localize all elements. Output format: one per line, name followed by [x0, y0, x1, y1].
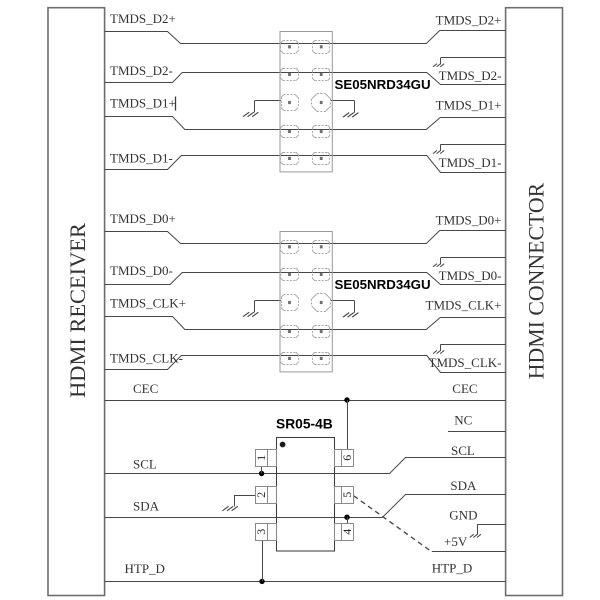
- svg-text:CEC: CEC: [133, 381, 158, 396]
- wire pin3 stub: [262, 541, 264, 582]
- HDMI connector box: [506, 8, 563, 596]
- ESD suppressor U2 package outline: [280, 232, 332, 372]
- U3 pin 1: [254, 450, 276, 467]
- junction HTP_D to pin3: [259, 579, 264, 584]
- wire to left ground: [255, 100, 281, 102]
- svg-text:TMDS_D0+: TMDS_D0+: [436, 212, 502, 227]
- svg-text:4: 4: [340, 529, 354, 535]
- svg-text:TMDS_D0-: TMDS_D0-: [110, 263, 173, 278]
- U3 pin 1 marker dot: [280, 442, 286, 448]
- U3 pin 6: [335, 450, 355, 467]
- svg-text:CEC: CEC: [452, 381, 477, 396]
- svg-text:TMDS_D0+: TMDS_D0+: [110, 211, 176, 226]
- pad pin ESD U1 r2c2: [312, 68, 330, 81]
- svg-text:SE05NRD34GU: SE05NRD34GU: [335, 77, 431, 92]
- svg-text:TMDS_CLK+: TMDS_CLK+: [110, 296, 186, 311]
- svg-text:HDMI RECEIVER: HDMI RECEIVER: [65, 223, 90, 398]
- wire +5V: [432, 551, 506, 553]
- pad pin ESD U2 r5c2: [312, 352, 330, 365]
- svg-text:SE05NRD34GU: SE05NRD34GU: [335, 277, 431, 292]
- pad pin ESD U2 r3c2: [312, 294, 331, 312]
- U3 pin 5: [335, 487, 355, 504]
- wire NC: [448, 431, 506, 433]
- pad pin ESD U2 r2c2: [312, 268, 330, 281]
- wire GND stub: [478, 524, 506, 526]
- wire shield stub: [441, 257, 506, 259]
- ground shield: [433, 144, 444, 153]
- svg-text:6: 6: [340, 455, 354, 461]
- svg-text:SDA: SDA: [133, 499, 160, 514]
- svg-text:TMDS_CLK+: TMDS_CLK+: [426, 297, 502, 312]
- junction SCL to pin1: [259, 471, 264, 476]
- ground shield: [433, 344, 444, 353]
- wire pin2 to ground: [234, 495, 256, 497]
- wire TMDS_D0+: [105, 231, 506, 244]
- svg-text:TMDS_D2+: TMDS_D2+: [436, 12, 502, 27]
- pad pin ESD U2 r5c1: [281, 352, 299, 365]
- wire to right ground: [331, 300, 355, 302]
- pad pin ESD U1 r4c2: [312, 125, 330, 138]
- svg-text:2: 2: [254, 492, 268, 498]
- wire SDA: [105, 495, 506, 518]
- pad pin ESD U1 r3c1: [281, 95, 299, 111]
- U3 pin 2: [254, 487, 276, 504]
- wire TMDS_CLK-: [105, 356, 506, 373]
- junction CEC to pin6: [344, 397, 349, 402]
- wire dashed pin5 to +5V: [354, 496, 432, 552]
- wire CEC stub to pin 6: [347, 400, 349, 449]
- wire SCL: [105, 458, 506, 474]
- svg-text:SCL: SCL: [451, 443, 475, 458]
- pad pin ESD U1 r1c2: [312, 41, 330, 54]
- pad pin ESD U1 r4c1: [281, 125, 299, 138]
- ground left of ESD: [243, 101, 258, 117]
- ground right of ESD: [343, 101, 358, 117]
- HDMI receiver box: [48, 8, 105, 596]
- ground GND net: [470, 524, 481, 537]
- svg-text:TMDS_D2+: TMDS_D2+: [110, 11, 176, 26]
- wire shield stub: [441, 57, 506, 59]
- svg-text:TMDS_CLK-: TMDS_CLK-: [110, 351, 183, 366]
- pad pin ESD U2 r1c1: [281, 241, 299, 254]
- svg-text:TMDS_D1+: TMDS_D1+: [110, 96, 176, 111]
- svg-text:TMDS_D1-: TMDS_D1-: [110, 151, 173, 166]
- svg-text:HDMI CONNECTOR: HDMI CONNECTOR: [525, 182, 549, 379]
- pad pin ESD U1 r1c1: [281, 41, 299, 54]
- svg-text:TMDS_D1+: TMDS_D1+: [436, 97, 502, 112]
- svg-text:SR05-4B: SR05-4B: [276, 417, 333, 432]
- wire CEC: [105, 400, 506, 402]
- svg-text:+5V: +5V: [444, 534, 468, 549]
- svg-text:GND: GND: [449, 508, 477, 523]
- pad pin ESD U2 r1c2: [312, 241, 330, 254]
- pad pin ESD U2 r3c1: [281, 295, 299, 311]
- wire TMDS_D1+: [105, 117, 506, 130]
- pad pin ESD U1 r2c1: [281, 68, 299, 81]
- wire shield stub: [441, 344, 506, 346]
- junction SDA to pin4: [344, 515, 349, 520]
- svg-text:1: 1: [254, 455, 268, 461]
- wire to right ground: [331, 100, 355, 102]
- text cursor artifact: [175, 97, 177, 111]
- svg-text:TMDS_D2-: TMDS_D2-: [110, 63, 173, 78]
- pad pin ESD U1 r5c2: [312, 152, 330, 165]
- svg-text:5: 5: [340, 492, 354, 498]
- pad pin ESD U2 r4c2: [312, 325, 330, 338]
- ESD diode U3 SR05-4B body: [277, 438, 335, 552]
- wire TMDS_D2+: [105, 31, 506, 44]
- svg-text:SDA: SDA: [450, 478, 477, 493]
- pad pin ESD U1 r5c1: [281, 152, 299, 165]
- wire to left ground: [255, 300, 281, 302]
- pad pin ESD U2 r4c1: [281, 325, 299, 338]
- svg-text:TMDS_D0-: TMDS_D0-: [439, 268, 502, 283]
- svg-text:HTP_D: HTP_D: [125, 561, 165, 576]
- wire HTP_D: [105, 581, 506, 583]
- wire shield stub: [441, 144, 506, 146]
- svg-text:HTP_D: HTP_D: [432, 561, 472, 576]
- U3 pin 3: [254, 524, 276, 541]
- ground shield: [433, 58, 444, 67]
- svg-text:TMDS_D2-: TMDS_D2-: [439, 68, 502, 83]
- pad pin ESD U1 r3c2: [312, 94, 331, 112]
- wire TMDS_CLK+: [105, 317, 506, 330]
- wire pin1 stub: [261, 466, 263, 473]
- wire pin4 stub: [347, 517, 349, 523]
- ground right of ESD: [343, 301, 358, 317]
- wire TMDS_D2-: [105, 73, 506, 85]
- svg-text:TMDS_D1-: TMDS_D1-: [439, 155, 502, 170]
- svg-text:SCL: SCL: [133, 457, 157, 472]
- svg-text:TMDS_CLK-: TMDS_CLK-: [429, 355, 502, 370]
- wire TMDS_D1-: [105, 156, 506, 173]
- ESD suppressor U1 package outline: [280, 32, 332, 172]
- wire TMDS_D0-: [105, 273, 506, 285]
- svg-text:3: 3: [254, 529, 268, 535]
- ground at pin2: [222, 495, 237, 511]
- pad pin ESD U2 r2c1: [281, 268, 299, 281]
- ground shield: [433, 258, 444, 267]
- U3 pin 4: [335, 524, 355, 541]
- ground left of ESD: [243, 301, 258, 317]
- svg-text:NC: NC: [454, 413, 472, 428]
